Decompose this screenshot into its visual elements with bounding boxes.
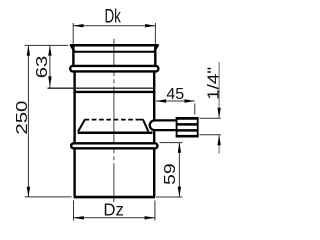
fitting groove 2 [176, 129, 199, 132]
top lip (crimped collar edge) [70, 44, 159, 46]
Dk arrow right [145, 24, 155, 27]
funnel right slope [143, 120, 148, 132]
collector top edge [73, 91, 155, 93]
funnel bottom [78, 131, 153, 134]
250 top extension line [25, 44, 68, 46]
lower rolled bead [71, 143, 157, 148]
fitting top edge [176, 117, 199, 120]
Dz dimension line [74, 217, 155, 219]
body left side [73, 66, 75, 196]
250 dimension line [27, 45, 29, 197]
Dk extension line right [154, 23, 156, 44]
bottom edge [74, 196, 156, 199]
45 arrow right [185, 99, 195, 102]
Dz extension line left [73, 200, 75, 220]
1/4 arrow down [217, 108, 220, 118]
Dk dimension line [73, 25, 155, 27]
body right side [153, 66, 155, 196]
fitting bottom edge [176, 135, 199, 138]
Dz arrow right [145, 216, 155, 219]
63 dimension line [49, 45, 51, 87]
svg-text:45: 45 [166, 86, 184, 103]
Dz extension line right [154, 200, 156, 220]
59 extension line bottom [156, 196, 183, 198]
svg-text:1/4": 1/4" [205, 67, 222, 100]
svg-text:59: 59 [162, 163, 179, 185]
250 arrow bottom [27, 187, 30, 197]
63 arrow bottom [48, 76, 51, 86]
1/4 arrow up [217, 135, 220, 145]
59 arrow top [178, 143, 181, 153]
svg-text:Dz: Dz [103, 200, 124, 220]
rim solid end [138, 119, 143, 121]
Dz arrow left [74, 216, 84, 219]
upper rolled bead [70, 66, 158, 72]
svg-text:Dk: Dk [104, 7, 121, 28]
59 extension line top [160, 142, 183, 144]
svg-text:250: 250 [14, 100, 31, 134]
collar left side [72, 46, 74, 66]
1/4 dimension line lower [218, 135, 220, 153]
Dk extension line left [72, 23, 74, 44]
top right chamfer [154, 45, 158, 52]
63 arrow top [48, 45, 51, 55]
collar right side [154, 46, 156, 66]
1/4 upper extension line [200, 117, 221, 119]
59 dimension line [178, 143, 180, 197]
centerline [113, 39, 115, 202]
svg-text:63: 63 [34, 56, 51, 79]
250 bottom extension line [25, 196, 72, 198]
threaded fitting [177, 118, 198, 136]
drain tube (capsule) [150, 120, 177, 130]
250 arrow top [27, 45, 30, 55]
45 extension line [194, 104, 196, 115]
collar lower edge [74, 51, 154, 53]
funnel hidden rim (dashed) [85, 119, 139, 121]
fitting groove 1 [176, 123, 199, 126]
Dk arrow left [73, 24, 83, 27]
top left chamfer [70, 45, 75, 52]
1/4 dimension line upper [218, 62, 220, 118]
funnel left slope [78, 119, 85, 131]
45 dimension line [156, 100, 195, 102]
1/4 lower extension line [200, 134, 221, 136]
59 arrow bottom [178, 187, 181, 197]
45 arrow left [156, 99, 166, 102]
thin seam line (63 extension) [48, 87, 156, 89]
